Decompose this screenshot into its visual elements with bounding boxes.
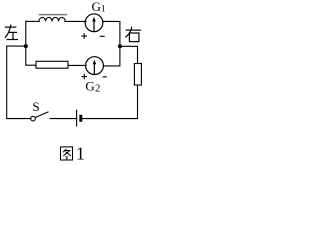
svg-text:1: 1 bbox=[76, 143, 85, 163]
battery thick short plate bbox=[80, 115, 82, 121]
wire resistor R2 to G2 bbox=[68, 64, 86, 66]
label you (right) bbox=[125, 27, 141, 42]
wire left stub to junction bbox=[7, 45, 26, 47]
wire G1 to top-right corner and down bbox=[103, 21, 120, 46]
galvanometer G1 circle bbox=[85, 14, 103, 32]
G2 minus sign bbox=[103, 76, 107, 78]
G2 plus sign bbox=[82, 74, 88, 80]
G1 plus sign bbox=[81, 33, 87, 39]
battery long thin plate bbox=[76, 110, 78, 126]
node junction dot right bbox=[118, 44, 122, 48]
G1 minus sign bbox=[100, 35, 105, 37]
wire switch to bottom-left corner and up bbox=[7, 46, 31, 119]
wire right vertical dot to middle row, left to G2 bbox=[104, 46, 120, 66]
resistor R2 horizontal box bbox=[36, 61, 68, 68]
wire battery to switch bbox=[50, 118, 77, 120]
switch S blade bbox=[35, 112, 48, 118]
galvanometer G2 circle bbox=[86, 57, 104, 75]
label zuo (left) bbox=[5, 25, 18, 40]
wire resistor to bottom-right corner bbox=[82, 85, 138, 119]
resistor R right vertical box bbox=[134, 64, 141, 86]
left vertical wire bbox=[25, 21, 27, 65]
G1 needle bbox=[93, 20, 95, 31]
wire branch dot to right resistor bbox=[120, 46, 138, 63]
switch pivot circle bbox=[31, 116, 36, 121]
wire top-left horizontal to coil bbox=[26, 20, 39, 22]
wire coil to G1 bbox=[65, 20, 86, 22]
caption figure glyph tu bbox=[61, 147, 73, 160]
G2 needle bbox=[93, 63, 95, 74]
node junction dot left bbox=[24, 44, 28, 48]
svg-text:S: S bbox=[32, 99, 39, 114]
G1 needle arrowhead bbox=[92, 17, 96, 22]
inductor L coil humps bbox=[39, 17, 65, 21]
inductor core bar bbox=[40, 14, 67, 16]
wire left corner to resistor R2 bbox=[26, 64, 36, 66]
G2 needle arrowhead bbox=[93, 60, 97, 65]
